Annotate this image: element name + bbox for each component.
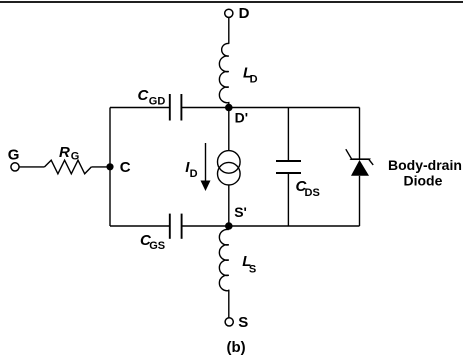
current arrow — [205, 143, 207, 182]
svg-text:S': S' — [234, 204, 247, 220]
svg-text:G: G — [71, 151, 80, 163]
current source I_D (two overlapping circles) — [218, 151, 241, 174]
wire: top rail right segment — [181, 107, 359, 109]
top border frame line — [0, 1, 463, 3]
wire: bottom rail right segment — [181, 225, 359, 227]
wire: C_DS bottom — [287, 173, 289, 226]
wire: C_DS top — [287, 108, 289, 162]
svg-text:D: D — [250, 73, 258, 85]
body-drain diode D1 (zener) — [346, 149, 373, 165]
resistor R_G — [45, 160, 92, 174]
node D' junction dot — [225, 104, 233, 112]
terminal S — [225, 318, 233, 326]
inductor L_S — [219, 229, 228, 290]
svg-text:S: S — [238, 314, 248, 331]
node C junction dot — [106, 163, 113, 170]
svg-text:(b): (b) — [227, 339, 246, 356]
svg-text:D': D' — [235, 110, 248, 126]
svg-text:Diode: Diode — [404, 172, 443, 188]
svg-text:DS: DS — [305, 187, 320, 199]
wire: top rail left segment — [110, 107, 170, 109]
svg-text:D: D — [190, 168, 198, 180]
svg-text:GD: GD — [149, 96, 166, 108]
wire: current source to S' — [228, 185, 230, 226]
wire: diode branch bottom — [359, 176, 361, 226]
capacitor C_GD — [169, 94, 171, 121]
node S' junction dot — [225, 222, 233, 230]
wire D terminal to L_D — [228, 18, 230, 44]
capacitor C_GS — [169, 214, 171, 239]
capacitor C_DS — [276, 160, 301, 162]
svg-text:Body-drain: Body-drain — [388, 157, 462, 173]
terminal D — [225, 9, 233, 17]
svg-text:C: C — [138, 87, 150, 104]
wire: diode branch top — [359, 108, 361, 160]
svg-text:D: D — [239, 5, 250, 22]
wire: left branch vertical — [109, 108, 111, 227]
svg-text:R: R — [59, 144, 70, 161]
wire G to resistor — [19, 166, 44, 168]
wire L_S to S terminal — [228, 290, 230, 318]
wire resistor to node C — [91, 166, 110, 168]
svg-text:GS: GS — [149, 240, 165, 252]
svg-text:S: S — [249, 264, 256, 276]
inductor L_D — [219, 43, 228, 107]
svg-text:G: G — [8, 146, 20, 163]
svg-text:C: C — [120, 159, 131, 176]
wire: D' to current source — [228, 108, 230, 152]
wire: bottom rail left segment — [110, 225, 170, 227]
terminal G — [11, 163, 19, 171]
